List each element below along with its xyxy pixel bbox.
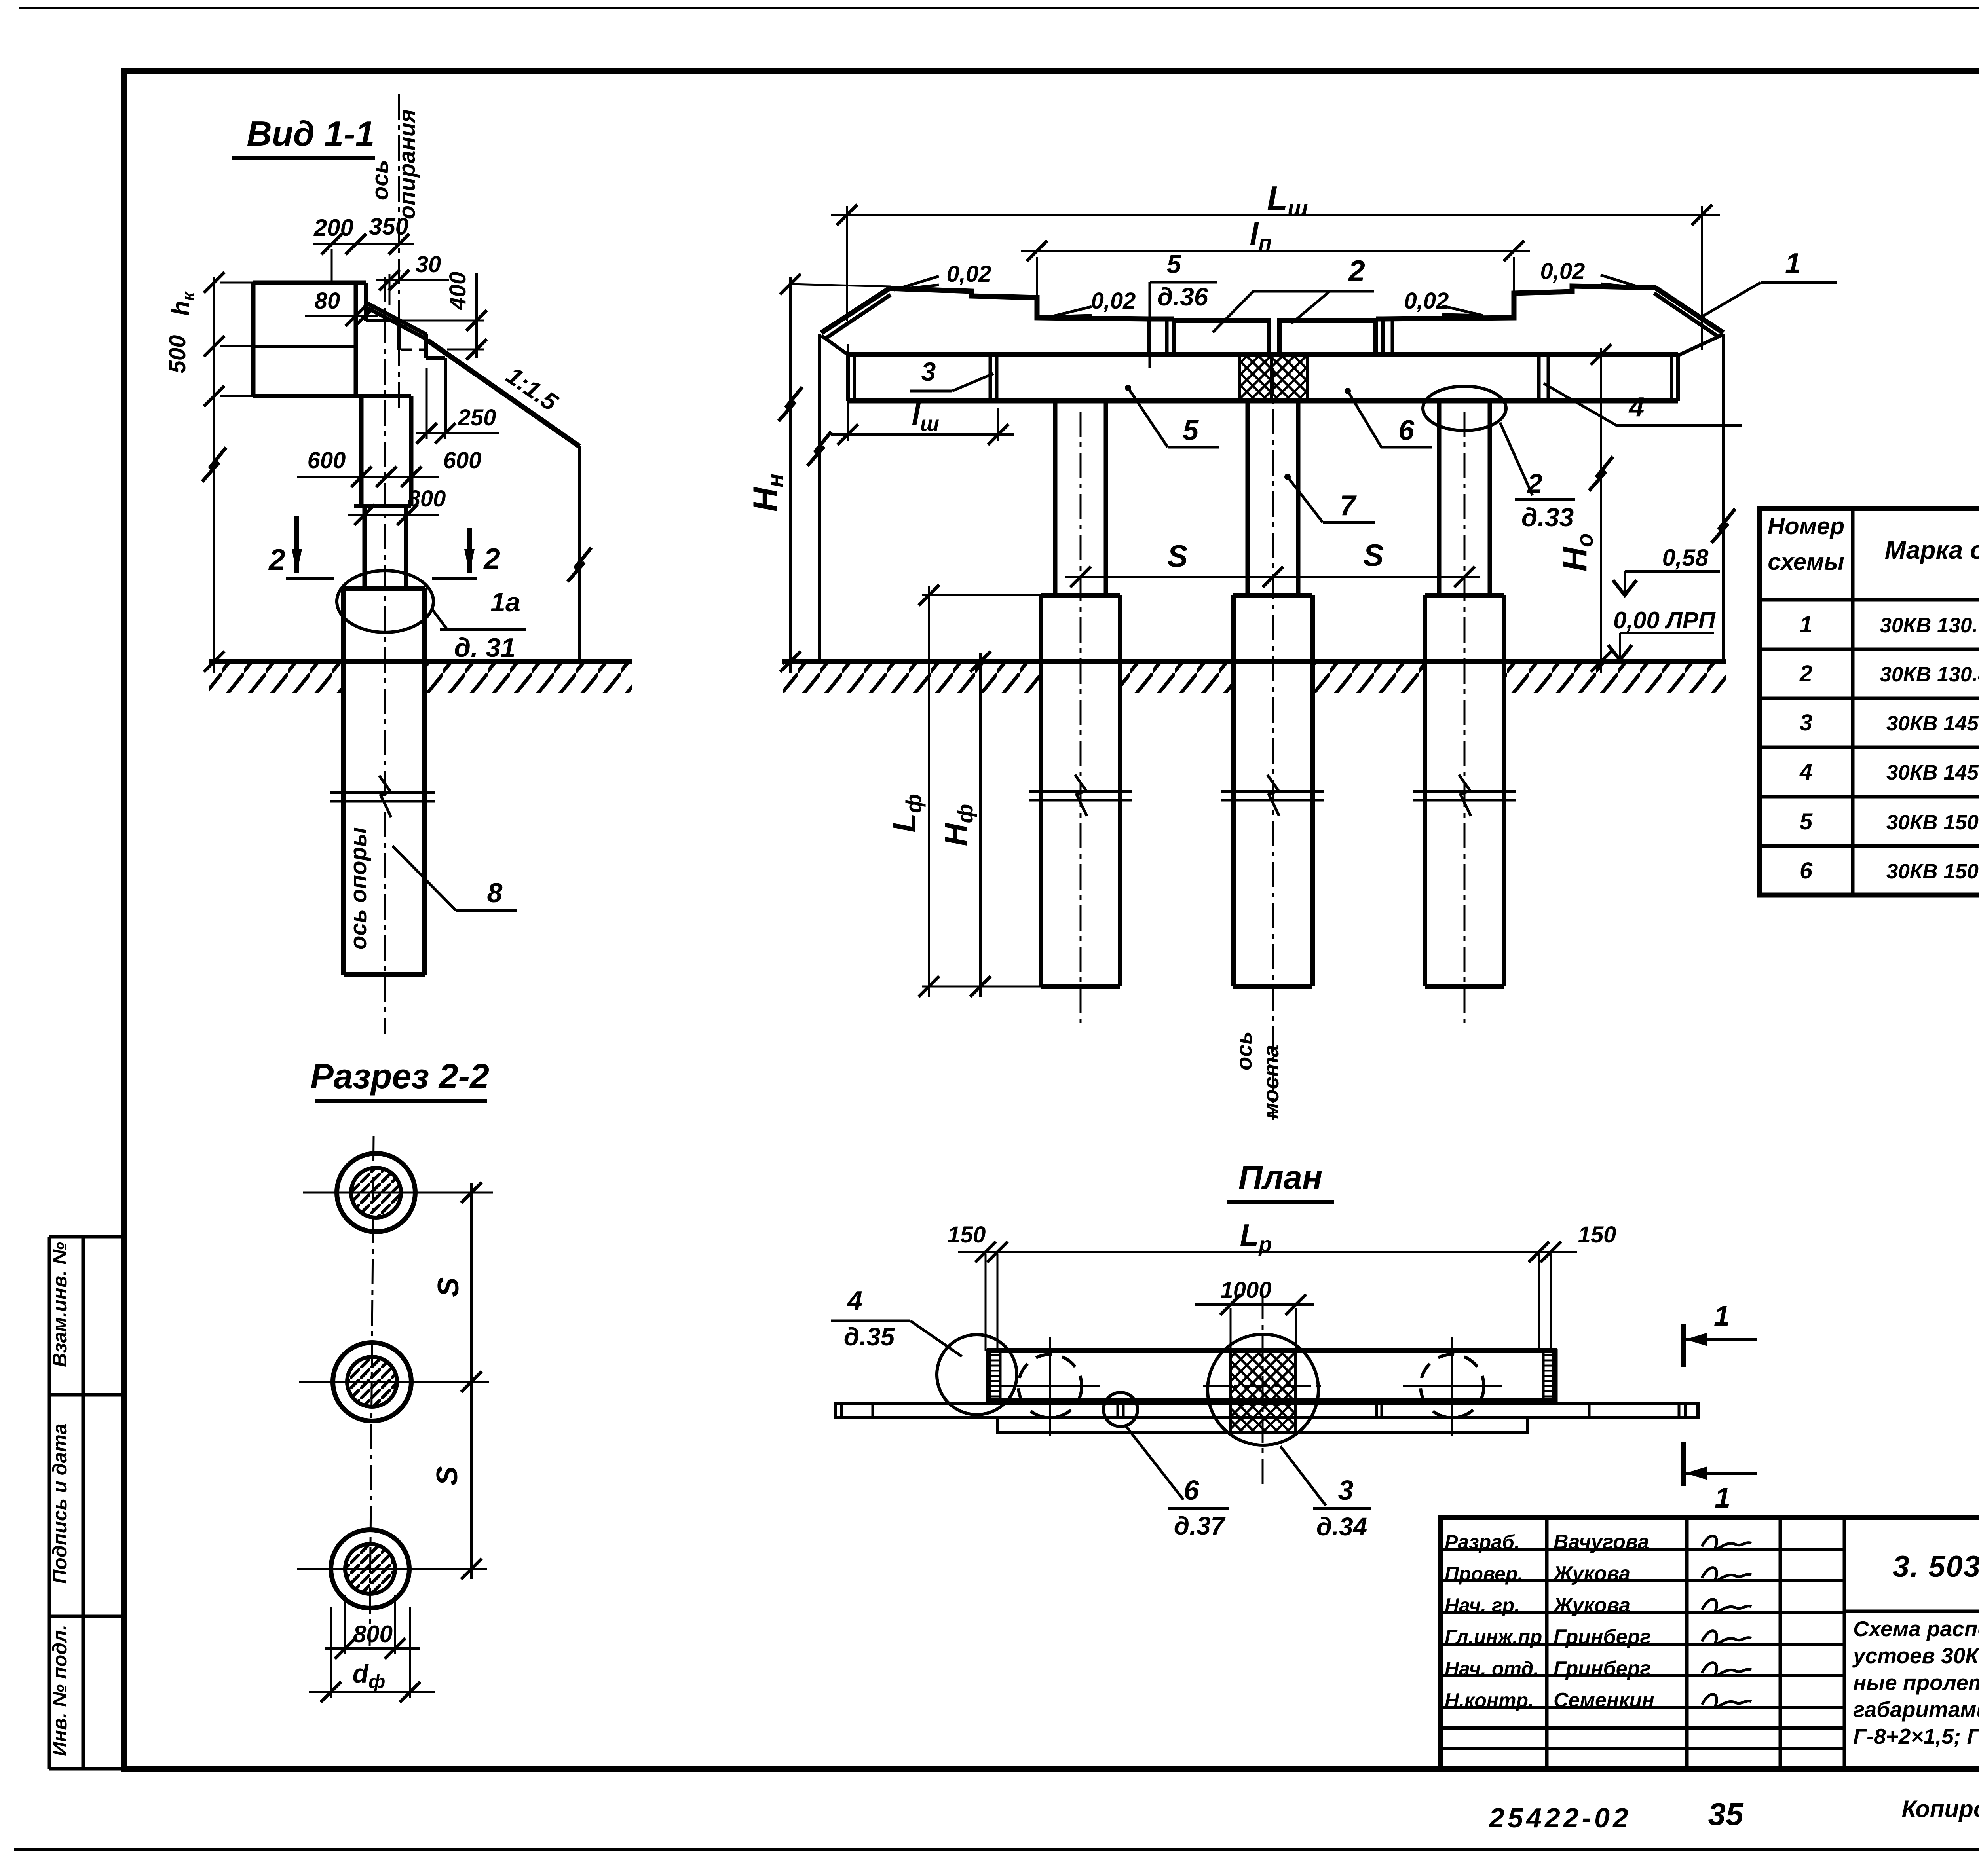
- svg-text:8: 8: [487, 877, 503, 908]
- svg-text:600: 600: [443, 448, 482, 473]
- svg-text:600: 600: [308, 448, 346, 473]
- svg-text:4: 4: [847, 1286, 862, 1316]
- svg-text:400: 400: [445, 272, 471, 311]
- svg-text:Схема расположения элементов: Схема расположения элементов: [1853, 1616, 1979, 1641]
- svg-text:30КВ 145.80-2-ф: 30КВ 145.80-2-ф: [1886, 761, 1979, 784]
- svg-text:ось опоры: ось опоры: [346, 827, 371, 950]
- svg-text:Вид 1-1: Вид 1-1: [247, 114, 374, 153]
- svg-text:2: 2: [268, 543, 285, 576]
- svg-text:Марка опоры: Марка опоры: [1885, 536, 1979, 564]
- svg-text:4: 4: [1628, 391, 1645, 422]
- svg-text:Нач. отд.: Нач. отд.: [1445, 1658, 1539, 1680]
- svg-text:6: 6: [1800, 858, 1813, 884]
- svg-text:200: 200: [313, 214, 353, 241]
- svg-text:1а: 1а: [490, 587, 520, 617]
- svg-text:0,58: 0,58: [1662, 544, 1709, 571]
- svg-text:3: 3: [921, 357, 936, 386]
- svg-text:3: 3: [1338, 1475, 1354, 1506]
- svg-text:30КВ 150.80-2-ф: 30КВ 150.80-2-ф: [1886, 860, 1979, 883]
- svg-text:30КВ 130.80-2б-ф: 30КВ 130.80-2б-ф: [1880, 663, 1979, 686]
- svg-text:Инв. № подл.: Инв. № подл.: [49, 1625, 71, 1756]
- svg-text:Провер.: Провер.: [1445, 1563, 1523, 1585]
- svg-text:1: 1: [1785, 248, 1801, 279]
- svg-text:3. 503.1 - 104.1 - 15: 3. 503.1 - 104.1 - 15: [1893, 1550, 1979, 1584]
- svg-text:Жукова: Жукова: [1552, 1562, 1630, 1585]
- svg-text:6: 6: [1184, 1475, 1200, 1506]
- svg-text:150: 150: [948, 1222, 986, 1248]
- svg-text:2: 2: [483, 542, 500, 575]
- svg-text:5: 5: [1183, 415, 1199, 446]
- svg-text:30: 30: [416, 252, 441, 277]
- svg-text:Взам.инв. №: Взам.инв. №: [49, 1242, 71, 1367]
- svg-text:S: S: [430, 1466, 463, 1486]
- svg-text:Номер: Номер: [1768, 513, 1844, 539]
- svg-text:2: 2: [1348, 254, 1365, 287]
- svg-text:опирания: опирания: [394, 109, 420, 220]
- svg-text:ось: ось: [367, 160, 393, 200]
- svg-text:2: 2: [1527, 469, 1542, 499]
- svg-text:ные пролетные строения с: ные пролетные строения с: [1853, 1670, 1979, 1695]
- svg-text:Гринберг: Гринберг: [1554, 1626, 1651, 1648]
- svg-text:800: 800: [408, 486, 446, 512]
- svg-text:500: 500: [165, 335, 190, 374]
- svg-text:5: 5: [1167, 249, 1182, 279]
- svg-text:0,02: 0,02: [1540, 258, 1585, 284]
- svg-text:Гл.инж.пр: Гл.инж.пр: [1445, 1626, 1542, 1648]
- svg-text:устоев 30КВ Lш.Нн под плит-: устоев 30КВ Lш.Нн под плит-: [1852, 1643, 1979, 1668]
- svg-text:д.34: д.34: [1316, 1512, 1367, 1541]
- svg-text:2: 2: [1799, 661, 1812, 687]
- svg-text:150: 150: [1578, 1222, 1616, 1248]
- svg-text:ось: ось: [1231, 1031, 1256, 1070]
- svg-text:3: 3: [1800, 710, 1812, 736]
- svg-text:80: 80: [315, 288, 340, 314]
- svg-text:Г-8+2×1,5; Г-10+2×0,75: Г-8+2×1,5; Г-10+2×0,75: [1853, 1724, 1979, 1749]
- svg-text:800: 800: [353, 1621, 393, 1647]
- svg-text:д.36: д.36: [1157, 283, 1208, 311]
- svg-text:Семенкин: Семенкин: [1554, 1689, 1654, 1712]
- svg-text:S: S: [1167, 539, 1188, 573]
- svg-text:Вачугова: Вачугова: [1554, 1531, 1649, 1554]
- svg-text:Разрез 2-2: Разрез 2-2: [310, 1057, 489, 1096]
- svg-text:250: 250: [458, 405, 496, 431]
- svg-text:7: 7: [1340, 490, 1357, 522]
- svg-text:30КВ 150.60-2-ф: 30КВ 150.60-2-ф: [1886, 811, 1979, 834]
- svg-text:6: 6: [1398, 415, 1415, 446]
- svg-text:Гринберг: Гринберг: [1554, 1657, 1651, 1680]
- svg-text:Копировал: Копировал: [1902, 1796, 1979, 1822]
- svg-text:д. 31: д. 31: [454, 633, 515, 663]
- svg-text:0,00 ЛРП: 0,00 ЛРП: [1613, 607, 1716, 634]
- svg-text:S: S: [1363, 538, 1384, 573]
- svg-text:1000: 1000: [1220, 1277, 1271, 1303]
- svg-text:д.33: д.33: [1521, 503, 1574, 532]
- svg-text:30КВ 130.60-2б-ф: 30КВ 130.60-2б-ф: [1880, 614, 1979, 637]
- svg-text:S: S: [431, 1277, 465, 1297]
- svg-text:4: 4: [1799, 759, 1812, 785]
- svg-text:д.35: д.35: [844, 1322, 895, 1351]
- svg-text:35: 35: [1708, 1796, 1744, 1832]
- svg-text:5: 5: [1800, 809, 1813, 835]
- svg-text:0,02: 0,02: [1404, 288, 1449, 314]
- svg-text:0,02: 0,02: [1091, 288, 1136, 314]
- svg-text:План: План: [1238, 1159, 1323, 1197]
- svg-text:Подпись и дата: Подпись и дата: [49, 1423, 71, 1584]
- svg-text:д.37: д.37: [1174, 1512, 1226, 1540]
- svg-text:1: 1: [1714, 1300, 1730, 1332]
- svg-text:схемы: схемы: [1768, 548, 1844, 575]
- svg-text:30КВ 145.60-2-ф: 30КВ 145.60-2-ф: [1886, 712, 1979, 735]
- svg-text:Разраб.: Разраб.: [1445, 1531, 1520, 1553]
- svg-text:Н.контр.: Н.контр.: [1445, 1689, 1534, 1711]
- svg-text:1: 1: [1715, 1482, 1730, 1514]
- svg-text:25422-02: 25422-02: [1488, 1802, 1631, 1833]
- svg-text:Жукова: Жукова: [1552, 1594, 1630, 1617]
- svg-text:Нач. гр.: Нач. гр.: [1445, 1594, 1520, 1616]
- svg-text:0,02: 0,02: [947, 261, 991, 287]
- svg-text:моста: моста: [1258, 1045, 1283, 1119]
- svg-text:350: 350: [369, 213, 408, 240]
- svg-text:1: 1: [1800, 612, 1812, 637]
- svg-text:габаритами Г-8+2×0,75;: габаритами Г-8+2×0,75;: [1853, 1697, 1979, 1722]
